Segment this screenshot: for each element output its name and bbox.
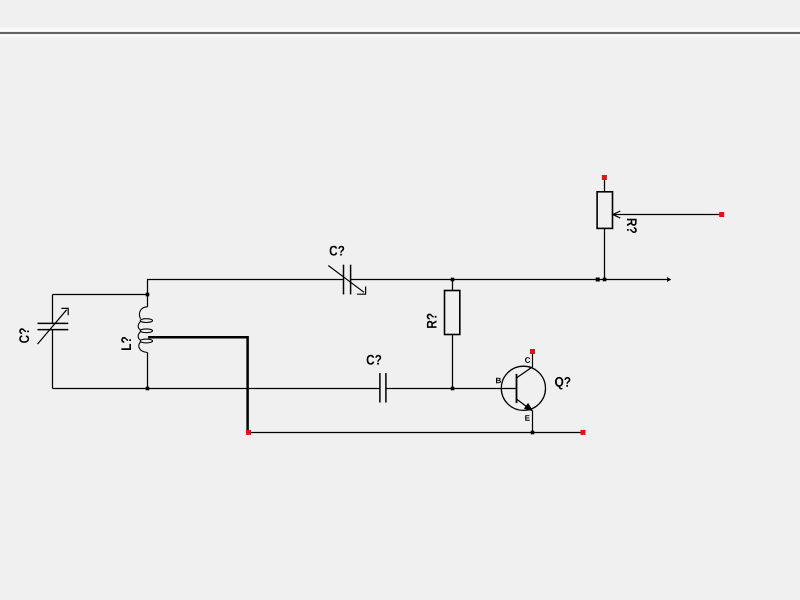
- capacitor C3 (coupling) plates: [380, 373, 386, 402]
- transistor Q1 emitter diagonal: [517, 399, 527, 407]
- pin: red terminal collector: [530, 349, 535, 354]
- transistor Q1 emitter vertical: [532, 411, 534, 432]
- junction node: emitter on bottom rail: [531, 431, 535, 435]
- transistor Q1 emitter arrowhead: [524, 403, 534, 412]
- node: wire endpoint square on rail: [596, 278, 600, 282]
- inductor L1 coil: [138, 307, 152, 353]
- wire: inductor bottom stub: [147, 353, 149, 389]
- pin: red terminal pot top: [602, 175, 607, 180]
- wire: top-left horizontal (tank top): [53, 294, 148, 296]
- pin: red terminal wiper right: [719, 212, 724, 217]
- junction node: pot bottom on rail: [603, 278, 607, 282]
- wire: pot wiper horizontal: [614, 214, 722, 216]
- wire: R1 bottom stub: [452, 335, 454, 389]
- transistor Q1 collector diagonal: [517, 367, 533, 378]
- wire: pot bottom down to top rail: [604, 228, 606, 279]
- wire: bottom horizontal left segment: [53, 388, 380, 390]
- wire: thick tap from inductor: [148, 337, 248, 431]
- transistor Q1 base bar: [516, 374, 518, 403]
- label C2 "C?": [330, 246, 345, 256]
- pin: red terminal bottom-left: [246, 430, 251, 435]
- label Q1 pin B: [496, 378, 501, 384]
- label C3 "C?": [367, 355, 382, 365]
- potentiometer R2 body: [597, 192, 612, 229]
- label R2 "R?": [627, 219, 637, 233]
- toolbar separator band: [0, 26, 800, 40]
- wire: bottom horizontal right of C3 to transistor base: [386, 388, 517, 390]
- transistor Q1 collector vertical: [532, 354, 534, 367]
- junction node: R1 top: [451, 278, 455, 282]
- wire: R1 top stub: [452, 280, 454, 291]
- wire: bottom rail (emitter line): [248, 432, 584, 434]
- label Q1 pin C: [525, 357, 530, 363]
- junction node: L bottom: [146, 387, 150, 391]
- wire: left vertical above C1 plates: [52, 295, 54, 324]
- capacitor C2 (variable, top) plates: [344, 265, 351, 295]
- capacitor C1 (variable, left) plates: [38, 323, 69, 329]
- label L1 "L?": [121, 337, 131, 350]
- wire: left vertical below C1 plates: [52, 330, 54, 389]
- wire: top rail right of C2: [351, 279, 668, 281]
- resistor R1 body: [445, 291, 460, 335]
- wire: corner from L top up to main top rail: [148, 280, 344, 295]
- wire: pot top stub from red pin: [604, 179, 606, 192]
- label Q1 pin E: [525, 415, 530, 421]
- junction node: R1 bottom: [451, 387, 455, 391]
- transistor Q1 circle: [501, 366, 545, 410]
- junction node: L top: [146, 293, 150, 297]
- potentiometer R2 wiper arrowhead: [613, 211, 621, 218]
- pin: red terminal bottom-right: [581, 430, 586, 435]
- arrowhead at right end of top rail: [667, 277, 671, 282]
- label Q1 "Q?": [555, 377, 570, 390]
- label R1 "R?": [427, 314, 437, 328]
- label C1 "C?": [19, 328, 29, 343]
- capacitor C2 arrow: [328, 266, 365, 295]
- capacitor C1 arrow: [38, 308, 69, 344]
- wire: inductor top stub: [147, 295, 149, 307]
